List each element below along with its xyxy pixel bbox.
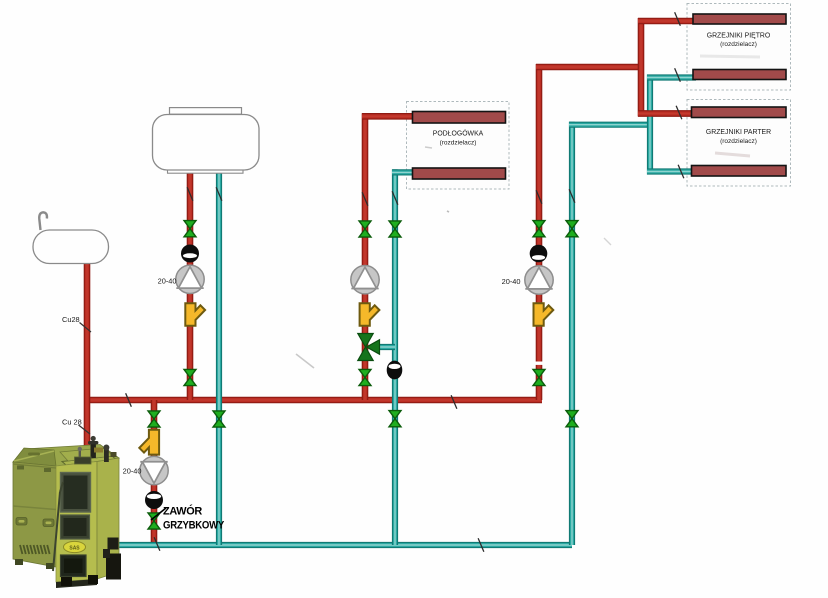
box GRZEJNIKI PIETRO (rozdzielacz) bbox=[687, 4, 791, 91]
wire teal bottom return to boiler bbox=[112, 542, 572, 548]
valve V8 bbox=[533, 221, 545, 229]
box PODLOGOWKA (rozdzielacz) bbox=[407, 102, 510, 190]
wire teal from parter return bar bbox=[647, 168, 693, 174]
valve V11 bbox=[566, 411, 578, 419]
pump P1 bbox=[176, 265, 204, 293]
radiator bar pietro return bbox=[693, 70, 786, 80]
radiator bar pietro supply bbox=[693, 14, 786, 24]
radiator bar parter return bbox=[692, 166, 787, 177]
valve V5 bbox=[359, 369, 371, 377]
wire teal big tank return bbox=[216, 168, 222, 545]
valve V4 bbox=[359, 221, 371, 229]
svg-text:20-40: 20-40 bbox=[123, 467, 142, 476]
check valve BT3 bbox=[534, 303, 554, 325]
svg-text:GRZEJNIKI PARTER: GRZEJNIKI PARTER bbox=[706, 129, 771, 136]
pipe break ticks bbox=[126, 12, 684, 552]
svg-text:Cu28: Cu28 bbox=[62, 315, 80, 324]
manifold bar podlogowka supply bbox=[413, 112, 506, 124]
check valve BT4 (mirrored) bbox=[139, 430, 159, 455]
wire teal from pietro return bar bbox=[647, 74, 696, 80]
expansion tank bbox=[33, 212, 109, 263]
svg-text:GRZYBKOWY: GRZYBKOWY bbox=[163, 520, 224, 532]
valve V13 (zawor grzybkowy) bbox=[148, 513, 160, 521]
svg-text:PODŁOGÓWKA: PODŁOGÓWKA bbox=[433, 129, 484, 138]
wire teal radiators return vertical bbox=[569, 122, 575, 545]
svg-text:(rozdzielacz): (rozdzielacz) bbox=[720, 41, 757, 48]
valve V10 (teal radiators) bbox=[566, 221, 578, 229]
valve V7 bbox=[389, 411, 401, 419]
pump P4 (boiler) bbox=[140, 456, 168, 484]
valve V3 (teal tank return) bbox=[213, 411, 225, 419]
valve V9 bbox=[533, 369, 545, 377]
svg-text:(rozdzielacz): (rozdzielacz) bbox=[720, 138, 757, 145]
wire red podlogowka riser bbox=[362, 113, 369, 400]
three-way mixing valve bbox=[358, 334, 380, 361]
wire red radiators riser bbox=[536, 64, 543, 400]
valve V1 bbox=[184, 221, 196, 229]
valve V6 (teal podlogowka) bbox=[389, 221, 401, 229]
pump P2 bbox=[351, 266, 379, 294]
check valve BT1 bbox=[185, 303, 205, 325]
wire red distribution vertical bbox=[638, 18, 645, 117]
boiler (solid fuel, green) bbox=[13, 436, 121, 588]
wire red podlogowka supply elbow bbox=[362, 113, 414, 120]
wire red radiators top horizontal bbox=[536, 64, 644, 71]
buffer tank bbox=[153, 108, 260, 174]
wire teal returns collector horizontal bbox=[569, 122, 650, 128]
svg-text:ZAWÓR: ZAWÓR bbox=[163, 505, 203, 518]
wire teal podlogowka return vertical bbox=[392, 169, 398, 545]
ball K3 on teal bbox=[387, 361, 403, 380]
wire red to parter supply bar bbox=[638, 110, 693, 117]
pump P3 bbox=[525, 266, 553, 294]
ball thermometer K1 bbox=[181, 245, 199, 263]
svg-text:20-40: 20-40 bbox=[502, 277, 521, 286]
faint artifact marks bbox=[296, 354, 314, 368]
joint notch bbox=[535, 362, 544, 365]
ball K2 bbox=[530, 245, 548, 263]
wire red supply main horizontal bbox=[84, 397, 542, 404]
radiator bar parter supply bbox=[692, 107, 787, 118]
wire red to pietro supply bar bbox=[638, 18, 696, 25]
wire teal podlogowka return elbow bbox=[392, 169, 414, 175]
wire red expansion tank drop bbox=[84, 263, 91, 446]
check valve BT2 bbox=[360, 303, 380, 325]
wire red to parter supply bar (over teal) bbox=[638, 110, 693, 117]
svg-text:20-40: 20-40 bbox=[158, 276, 177, 285]
valve V2 bbox=[184, 369, 196, 377]
ball K4 bbox=[145, 491, 163, 509]
svg-text:(rozdzielacz): (rozdzielacz) bbox=[440, 139, 477, 146]
wire red riser from big tank bbox=[187, 168, 194, 400]
valve V12 bbox=[148, 411, 160, 419]
svg-text:GRZEJNIKI PIĘTRO: GRZEJNIKI PIĘTRO bbox=[707, 32, 771, 39]
manifold bar podlogowka return bbox=[413, 168, 506, 179]
box GRZEJNIKI PARTER (rozdzielacz) bbox=[687, 100, 791, 187]
wire teal mixing branch bbox=[374, 344, 395, 350]
wire teal returns collector vertical bbox=[647, 75, 653, 175]
svg-text:SAS: SAS bbox=[69, 546, 80, 552]
wire red bypass drop (zawor grzybkowy branch) bbox=[151, 400, 158, 547]
